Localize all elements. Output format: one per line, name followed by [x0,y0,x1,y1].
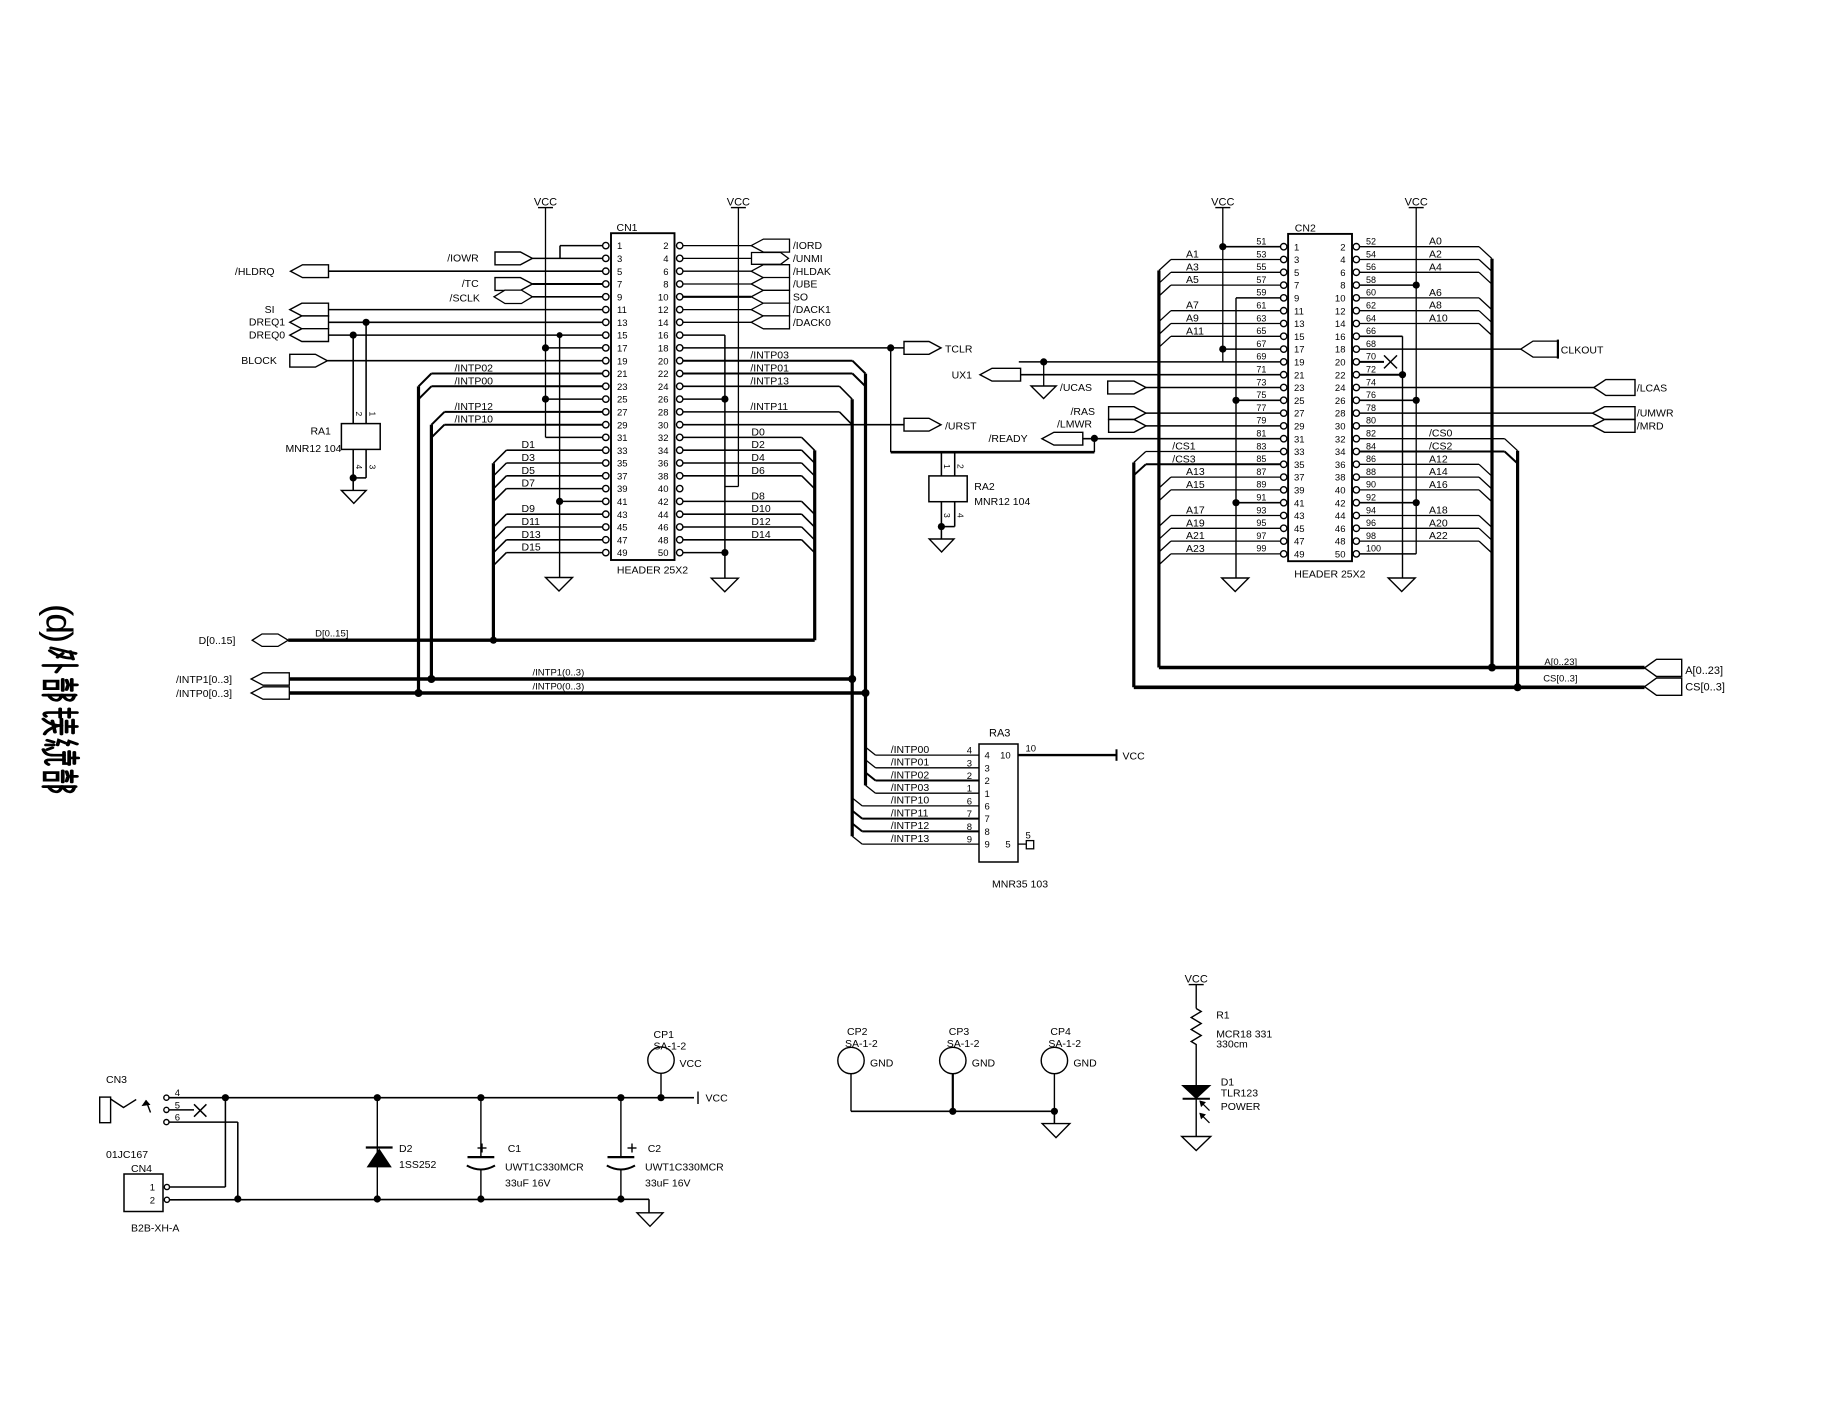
svg-text:58: 58 [1366,275,1376,285]
svg-text:A1: A1 [1186,249,1199,261]
svg-text:97: 97 [1256,531,1266,541]
svg-text:1: 1 [1294,242,1299,253]
svg-text:35: 35 [1294,460,1305,471]
svg-text:01JC167: 01JC167 [106,1149,148,1161]
svg-text:A2: A2 [1429,249,1442,261]
svg-text:D2: D2 [751,439,765,451]
svg-text:49: 49 [1294,550,1305,561]
svg-text:/INTP03: /INTP03 [750,350,789,362]
svg-text:A[0..23]: A[0..23] [1685,665,1723,677]
svg-text:SA-1-2: SA-1-2 [845,1038,878,1050]
svg-text:45: 45 [617,523,628,534]
svg-text:/LCAS: /LCAS [1637,383,1667,395]
svg-text:33uF 16V: 33uF 16V [505,1178,551,1190]
svg-text:5: 5 [1294,268,1299,279]
svg-text:SA-1-2: SA-1-2 [654,1041,687,1053]
svg-text:11: 11 [1294,306,1304,317]
svg-text:86: 86 [1366,454,1376,464]
svg-text:D13: D13 [522,529,541,541]
svg-text:7: 7 [1294,281,1299,292]
svg-text:84: 84 [1366,441,1376,451]
svg-text:A3: A3 [1186,261,1199,273]
svg-text:A10: A10 [1429,313,1448,325]
svg-text:A21: A21 [1186,530,1205,542]
svg-text:/INTP11: /INTP11 [891,807,929,819]
svg-text:10: 10 [1026,743,1037,754]
svg-text:93: 93 [1256,505,1266,515]
svg-text:89: 89 [1256,480,1266,490]
svg-text:15: 15 [617,331,628,342]
svg-text:90: 90 [1366,480,1376,490]
svg-text:POWER: POWER [1221,1101,1261,1113]
svg-text:19: 19 [1294,358,1305,369]
svg-text:26: 26 [658,395,669,406]
svg-text:/INTP01: /INTP01 [750,363,789,375]
svg-text:9: 9 [1294,294,1299,305]
svg-text:C2: C2 [648,1143,662,1155]
svg-text:CS[0..3]: CS[0..3] [1685,682,1725,694]
svg-text:/TC: /TC [462,278,479,290]
svg-text:2: 2 [150,1196,155,1207]
svg-text:55: 55 [1256,262,1266,272]
svg-text:/INTP13: /INTP13 [750,375,789,387]
svg-text:A8: A8 [1429,300,1442,312]
svg-text:3: 3 [967,758,972,769]
svg-text:/INTP0[0..3]: /INTP0[0..3] [176,688,232,700]
svg-text:D7: D7 [522,478,536,490]
svg-text:BLOCK: BLOCK [241,355,277,367]
svg-text:SO: SO [793,291,808,303]
svg-text:A18: A18 [1429,505,1448,517]
svg-text:29: 29 [1294,422,1305,433]
svg-text:56: 56 [1366,262,1376,272]
svg-text:UX1: UX1 [952,369,973,381]
svg-text:27: 27 [1294,409,1305,420]
svg-text:2: 2 [955,464,965,469]
svg-text:/MRD: /MRD [1637,421,1664,433]
svg-text:4: 4 [354,465,364,470]
svg-text:14: 14 [1335,319,1346,330]
svg-text:13: 13 [1294,319,1305,330]
svg-text:4: 4 [967,746,972,757]
svg-text:/READY: /READY [989,433,1028,445]
svg-text:10: 10 [1335,294,1346,305]
svg-text:46: 46 [658,523,669,534]
svg-text:32: 32 [1335,434,1346,445]
svg-text:2: 2 [354,412,364,417]
svg-text:D[0..15]: D[0..15] [199,635,236,647]
svg-text:VCC: VCC [1405,197,1428,209]
svg-text:88: 88 [1366,467,1376,477]
svg-text:44: 44 [1335,511,1346,522]
svg-text:/UBE: /UBE [793,279,818,291]
svg-text:20: 20 [658,356,669,367]
svg-text:28: 28 [658,408,669,419]
svg-text:4: 4 [663,254,668,265]
svg-text:92: 92 [1366,493,1376,503]
svg-text:72: 72 [1366,365,1376,375]
svg-text:42: 42 [658,497,669,508]
svg-text:91: 91 [1256,493,1266,503]
svg-text:/INTP01: /INTP01 [891,757,930,769]
svg-text:D15: D15 [522,542,541,554]
svg-text:16: 16 [658,331,669,342]
svg-text:A11: A11 [1186,325,1204,337]
svg-text:D4: D4 [751,452,765,464]
svg-text:/INTP00: /INTP00 [455,375,494,387]
svg-text:34: 34 [658,446,669,457]
svg-text:/UMWR: /UMWR [1637,408,1674,420]
svg-text:GND: GND [1073,1058,1097,1070]
svg-text:59: 59 [1256,288,1266,298]
svg-text:34: 34 [1335,447,1346,458]
svg-text:VCC: VCC [1123,751,1146,763]
svg-text:CS[0..3]: CS[0..3] [1543,673,1577,684]
svg-text:RA3: RA3 [989,728,1010,740]
svg-text:VCC: VCC [1211,197,1234,209]
svg-text:65: 65 [1256,326,1266,336]
svg-text:6: 6 [985,802,990,813]
svg-text:45: 45 [1294,524,1305,535]
svg-text:3: 3 [1294,255,1299,266]
svg-text:36: 36 [658,459,669,470]
svg-text:/INTP11: /INTP11 [750,401,788,413]
svg-text:CP4: CP4 [1050,1026,1071,1038]
svg-text:33uF 16V: 33uF 16V [645,1178,691,1190]
svg-text:31: 31 [1294,434,1305,445]
svg-text:1: 1 [617,241,622,252]
svg-text:1: 1 [985,789,990,800]
svg-text:/CS1: /CS1 [1172,441,1196,453]
svg-text:CN4: CN4 [131,1163,152,1175]
svg-text:CP3: CP3 [949,1026,970,1038]
svg-text:CP2: CP2 [847,1026,868,1038]
svg-text:43: 43 [1294,511,1305,522]
svg-text:D2: D2 [399,1143,413,1155]
svg-text:99: 99 [1256,544,1266,554]
svg-text:67: 67 [1256,339,1266,349]
svg-text:A23: A23 [1186,543,1205,555]
svg-text:RA2: RA2 [974,481,995,493]
svg-text:17: 17 [1294,345,1305,356]
svg-text:66: 66 [1366,326,1376,336]
svg-text:D12: D12 [751,516,770,528]
svg-text:5: 5 [1005,840,1010,851]
svg-text:18: 18 [658,344,669,355]
svg-text:30: 30 [1335,422,1346,433]
svg-text:9: 9 [617,292,622,303]
svg-text:/INTP1(0..3): /INTP1(0..3) [533,668,585,679]
svg-text:82: 82 [1366,429,1376,439]
svg-text:/RAS: /RAS [1070,406,1095,418]
svg-text:37: 37 [617,471,628,482]
svg-text:98: 98 [1366,531,1376,541]
svg-text:44: 44 [658,510,669,521]
svg-text:38: 38 [1335,473,1346,484]
svg-text:68: 68 [1366,339,1376,349]
svg-text:47: 47 [1294,537,1305,548]
svg-text:80: 80 [1366,416,1376,426]
svg-text:95: 95 [1256,518,1266,528]
svg-text:4: 4 [985,751,990,762]
svg-text:5: 5 [1026,831,1031,842]
svg-text:8: 8 [985,827,990,838]
svg-text:GND: GND [972,1058,996,1070]
svg-text:25: 25 [617,395,628,406]
svg-text:/DACK0: /DACK0 [793,317,831,329]
svg-text:/CS3: /CS3 [1172,453,1196,465]
svg-text:16: 16 [1335,332,1346,343]
svg-text:4: 4 [1340,255,1345,266]
svg-text:/INTP13: /INTP13 [891,833,930,845]
svg-text:94: 94 [1366,505,1376,515]
svg-text:42: 42 [1335,498,1346,509]
svg-text:A16: A16 [1429,479,1448,491]
svg-text:GND: GND [870,1058,894,1070]
svg-text:62: 62 [1366,301,1376,311]
svg-text:/INTP12: /INTP12 [455,401,494,413]
svg-text:17: 17 [617,344,628,355]
svg-text:/DACK1: /DACK1 [793,304,831,316]
svg-text:7: 7 [985,814,990,825]
svg-text:/INTP02: /INTP02 [455,363,494,375]
svg-text:40: 40 [1335,486,1346,497]
svg-text:46: 46 [1335,524,1346,535]
svg-text:D14: D14 [751,529,770,541]
svg-text:/URST: /URST [945,420,977,432]
svg-text:10: 10 [658,292,669,303]
svg-text:33: 33 [617,446,628,457]
svg-text:35: 35 [617,459,628,470]
svg-text:63: 63 [1256,313,1266,323]
svg-text:6: 6 [1340,268,1345,279]
svg-text:R1: R1 [1216,1010,1230,1022]
svg-text:3: 3 [617,254,622,265]
svg-text:83: 83 [1256,441,1266,451]
svg-text:2: 2 [967,771,972,782]
svg-text:25: 25 [1294,396,1305,407]
svg-text:2: 2 [1340,242,1345,253]
svg-text:1: 1 [967,784,972,795]
svg-text:22: 22 [1335,370,1346,381]
svg-text:8: 8 [967,822,972,833]
svg-text:50: 50 [658,548,669,559]
svg-text:26: 26 [1335,396,1346,407]
svg-text:D8: D8 [751,490,765,502]
svg-text:HEADER 25X2: HEADER 25X2 [617,565,688,577]
svg-text:71: 71 [1256,365,1266,375]
svg-text:13: 13 [617,318,628,329]
svg-text:7: 7 [967,809,972,820]
svg-text:SA-1-2: SA-1-2 [947,1038,980,1050]
svg-text:48: 48 [658,535,669,546]
svg-text:76: 76 [1366,390,1376,400]
svg-text:VCC: VCC [534,197,557,209]
svg-text:37: 37 [1294,473,1305,484]
svg-text:33: 33 [1294,447,1305,458]
svg-text:96: 96 [1366,518,1376,528]
svg-text:70: 70 [1366,352,1376,362]
svg-text:CP1: CP1 [654,1029,675,1041]
svg-text:54: 54 [1366,249,1376,259]
svg-text:39: 39 [617,484,628,495]
svg-text:/HLDAK: /HLDAK [793,266,831,278]
svg-text:81: 81 [1256,429,1266,439]
svg-text:8: 8 [663,280,668,291]
svg-text:330cm: 330cm [1216,1039,1248,1051]
svg-text:CN2: CN2 [1295,223,1316,235]
svg-text:D0: D0 [751,426,765,438]
svg-text:/UCAS: /UCAS [1060,382,1092,394]
svg-text:69: 69 [1256,352,1266,362]
svg-text:A6: A6 [1429,287,1442,299]
svg-text:/IOWR: /IOWR [447,253,479,265]
svg-text:A4: A4 [1429,261,1442,273]
svg-text:57: 57 [1256,275,1266,285]
svg-text:SI: SI [265,304,275,316]
svg-text:79: 79 [1256,416,1266,426]
svg-text:73: 73 [1256,377,1266,387]
svg-text:3: 3 [942,513,952,518]
svg-text:3: 3 [985,763,990,774]
svg-text:24: 24 [658,382,669,393]
svg-text:UWT1C330MCR: UWT1C330MCR [505,1162,584,1174]
svg-text:1: 1 [942,464,952,469]
svg-text:A5: A5 [1186,274,1199,286]
svg-text:D11: D11 [522,516,541,528]
svg-text:38: 38 [658,471,669,482]
svg-text:A17: A17 [1186,505,1205,517]
svg-text:MNR35 103: MNR35 103 [992,879,1048,891]
svg-text:2: 2 [663,241,668,252]
svg-text:/LMWR: /LMWR [1057,419,1092,431]
svg-text:21: 21 [1294,370,1305,381]
svg-text:7: 7 [617,280,622,291]
svg-text:/IORD: /IORD [793,240,823,252]
svg-text:MNR12 104: MNR12 104 [974,496,1030,508]
svg-text:5: 5 [617,267,622,278]
svg-text:CN1: CN1 [617,222,638,234]
svg-text:14: 14 [658,318,669,329]
svg-text:22: 22 [658,369,669,380]
svg-text:VCC: VCC [1185,974,1208,986]
svg-text:52: 52 [1366,237,1376,247]
svg-text:D5: D5 [522,465,536,477]
svg-text:75: 75 [1256,390,1266,400]
svg-text:48: 48 [1335,537,1346,548]
svg-text:10: 10 [1000,751,1011,762]
svg-text:MNR12 104: MNR12 104 [285,443,341,455]
svg-text:VCC: VCC [680,1058,703,1070]
svg-text:32: 32 [658,433,669,444]
svg-text:1: 1 [150,1183,155,1194]
svg-text:D6: D6 [751,465,765,477]
svg-text:41: 41 [1294,498,1305,509]
svg-text:20: 20 [1335,358,1346,369]
svg-text:1: 1 [367,412,377,417]
svg-text:64: 64 [1366,313,1376,323]
svg-text:/INTP12: /INTP12 [891,820,930,832]
svg-text:24: 24 [1335,383,1346,394]
svg-text:4: 4 [955,513,965,518]
svg-text:100: 100 [1366,544,1381,554]
svg-text:87: 87 [1256,467,1266,477]
svg-text:CLKOUT: CLKOUT [1561,344,1604,356]
svg-text:A19: A19 [1186,517,1205,529]
svg-text:D3: D3 [522,452,536,464]
svg-text:21: 21 [617,369,628,380]
svg-text:A[0..23]: A[0..23] [1544,657,1577,668]
svg-text:50: 50 [1335,550,1346,561]
svg-text:D9: D9 [522,503,536,515]
svg-text:19: 19 [617,356,628,367]
svg-text:40: 40 [658,484,669,495]
svg-text:/INTP10: /INTP10 [455,414,494,426]
svg-text:30: 30 [658,420,669,431]
svg-text:/INTP00: /INTP00 [891,744,930,756]
svg-text:9: 9 [967,835,972,846]
svg-text:53: 53 [1256,249,1266,259]
svg-text:CN3: CN3 [106,1074,127,1086]
svg-text:D10: D10 [751,503,770,515]
svg-text:RA1: RA1 [310,426,331,438]
svg-text:VCC: VCC [706,1093,729,1105]
svg-text:3: 3 [367,465,377,470]
svg-text:/INTP03: /INTP03 [891,782,930,794]
svg-text:A15: A15 [1186,479,1205,491]
svg-text:41: 41 [617,497,628,508]
svg-text:77: 77 [1256,403,1266,413]
svg-text:UWT1C330MCR: UWT1C330MCR [645,1162,724,1174]
svg-text:VCC: VCC [727,197,750,209]
svg-text:/INTP10: /INTP10 [891,795,930,807]
svg-text:/INTP1[0..3]: /INTP1[0..3] [176,674,232,686]
svg-text:1SS252: 1SS252 [399,1159,437,1171]
svg-text:28: 28 [1335,409,1346,420]
svg-text:49: 49 [617,548,628,559]
svg-text:B2B-XH-A: B2B-XH-A [131,1223,179,1235]
svg-text:85: 85 [1256,454,1266,464]
svg-text:A12: A12 [1429,453,1448,465]
svg-text:(d): (d) [39,604,80,642]
svg-text:61: 61 [1256,301,1266,311]
svg-text:29: 29 [617,420,628,431]
svg-text:2: 2 [985,776,990,787]
svg-text:/INTP02: /INTP02 [891,769,930,781]
svg-text:18: 18 [1335,345,1346,356]
svg-text:51: 51 [1256,237,1266,247]
svg-text:DREQ0: DREQ0 [249,329,285,341]
svg-text:D1: D1 [522,439,536,451]
svg-text:39: 39 [1294,486,1305,497]
svg-text:SA-1-2: SA-1-2 [1048,1038,1081,1050]
svg-text:11: 11 [617,305,627,316]
svg-text:D[0..15]: D[0..15] [315,629,348,640]
svg-text:/CS2: /CS2 [1429,441,1453,453]
svg-text:74: 74 [1366,377,1376,387]
svg-text:36: 36 [1335,460,1346,471]
svg-text:TLR123: TLR123 [1221,1088,1259,1100]
svg-text:23: 23 [617,382,628,393]
svg-text:31: 31 [617,433,628,444]
svg-text:12: 12 [658,305,669,316]
svg-text:/HLDRQ: /HLDRQ [235,266,275,278]
svg-text:/INTP0(0..3): /INTP0(0..3) [533,682,585,693]
svg-text:60: 60 [1366,288,1376,298]
svg-text:A14: A14 [1429,466,1448,478]
svg-text:47: 47 [617,535,628,546]
svg-text:9: 9 [985,840,990,851]
